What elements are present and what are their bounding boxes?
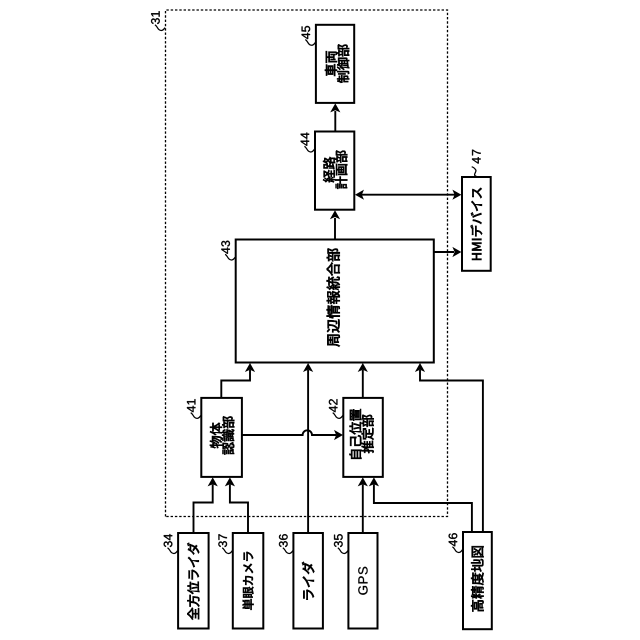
wire 44→45 with arrowhead <box>330 103 340 131</box>
wire 43→47 with arrowhead <box>434 247 462 257</box>
wire 36→43 straight with arrowhead <box>303 363 313 533</box>
block 36 ライダ (lidar) <box>293 533 323 629</box>
label 31 with leader squiggle <box>151 11 165 30</box>
wire 44↔47 double-headed arrow <box>355 190 461 200</box>
label 43 with leader squiggle <box>221 241 235 260</box>
label 42 with leader squiggle <box>329 399 343 418</box>
wire 41→43 (jog) with arrowhead <box>221 363 255 398</box>
wire 43→44 with arrowhead <box>330 210 340 239</box>
block 47 HMIデバイス (HMI device) <box>462 177 491 271</box>
wire 37→41 (jog) with arrowhead <box>225 477 248 533</box>
label 37 with leader squiggle <box>218 534 232 553</box>
block 46 高精度地図 (HD map) <box>463 532 492 629</box>
block 42 自己位置推定部 (self-position estimation) <box>343 398 383 477</box>
wire 34→41 (jog) with arrowhead <box>194 477 218 533</box>
diagram drawn in landscape orientation, rotated 90deg CCW to portrait <box>151 10 492 629</box>
block 34 全方位ライダ (omnidirectional lidar) <box>178 533 209 629</box>
label 46 with leader squiggle <box>449 533 463 552</box>
block 37 単眼カメラ (monocular camera) <box>233 533 263 629</box>
label 45 with leader squiggle <box>302 26 316 45</box>
block 41 物体認識部 (object recognition) <box>201 398 242 477</box>
label 44 with leader squiggle <box>301 133 315 152</box>
wire 46→42 (jog) with arrowhead <box>369 477 472 532</box>
block 43 周辺情報統合部 (surrounding info integration) <box>236 240 434 363</box>
label 36 with leader squiggle <box>279 534 293 553</box>
label 34 with leader squiggle <box>164 534 178 553</box>
wire 35→42 straight with arrowhead <box>358 477 368 533</box>
wire 41→42 vertical with hop over lidar wire, arrowhead <box>242 430 343 440</box>
label 41 with leader squiggle <box>187 399 201 418</box>
label 35 with leader squiggle <box>334 534 348 553</box>
label 47 with leader squiggle <box>472 150 481 177</box>
wire 46→43 (jog) with arrowhead <box>415 363 483 532</box>
block 44 経路計画部 (route planning) <box>315 132 354 210</box>
dashed boundary box 31 (vehicle control system) <box>166 10 448 517</box>
wire 42→43 with arrowhead <box>358 363 368 398</box>
block 35 GPS <box>348 533 377 629</box>
block 45 車両制御部 (vehicle control) <box>316 25 354 103</box>
